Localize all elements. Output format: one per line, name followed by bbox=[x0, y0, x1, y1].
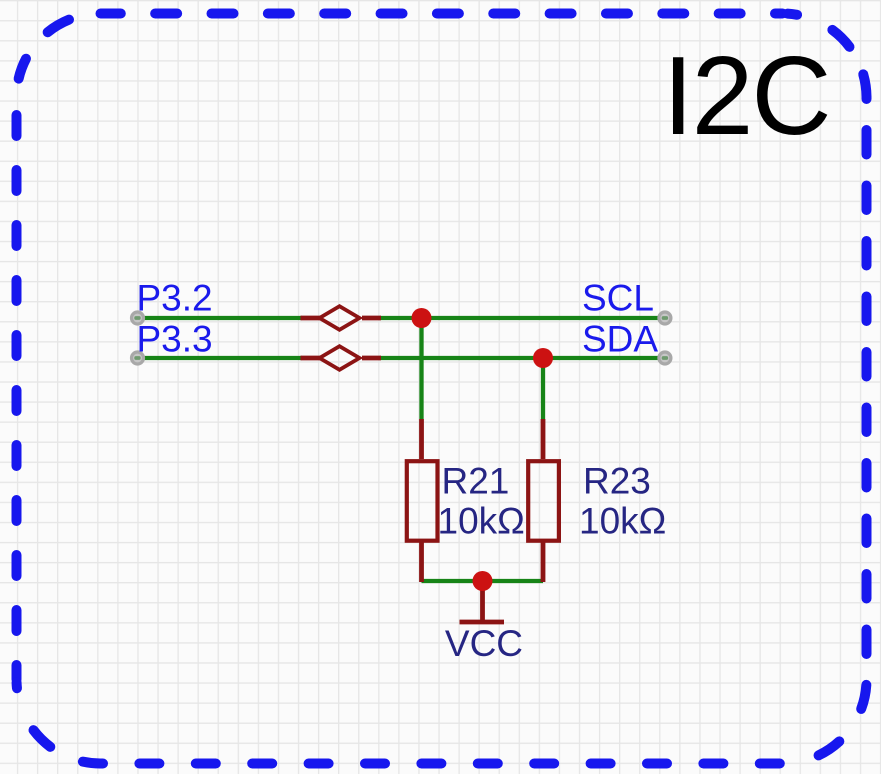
svg-text:VCC: VCC bbox=[445, 623, 523, 664]
svg-text:P3.2: P3.2 bbox=[137, 278, 213, 319]
svg-text:SCL: SCL bbox=[582, 277, 654, 318]
svg-text:10kΩ: 10kΩ bbox=[579, 501, 666, 542]
svg-text:I2C: I2C bbox=[663, 34, 830, 158]
svg-text:SDA: SDA bbox=[582, 318, 658, 359]
svg-text:R21: R21 bbox=[442, 461, 510, 502]
svg-text:P3.3: P3.3 bbox=[137, 319, 213, 360]
svg-text:R23: R23 bbox=[583, 461, 651, 502]
svg-text:10kΩ: 10kΩ bbox=[438, 501, 525, 542]
